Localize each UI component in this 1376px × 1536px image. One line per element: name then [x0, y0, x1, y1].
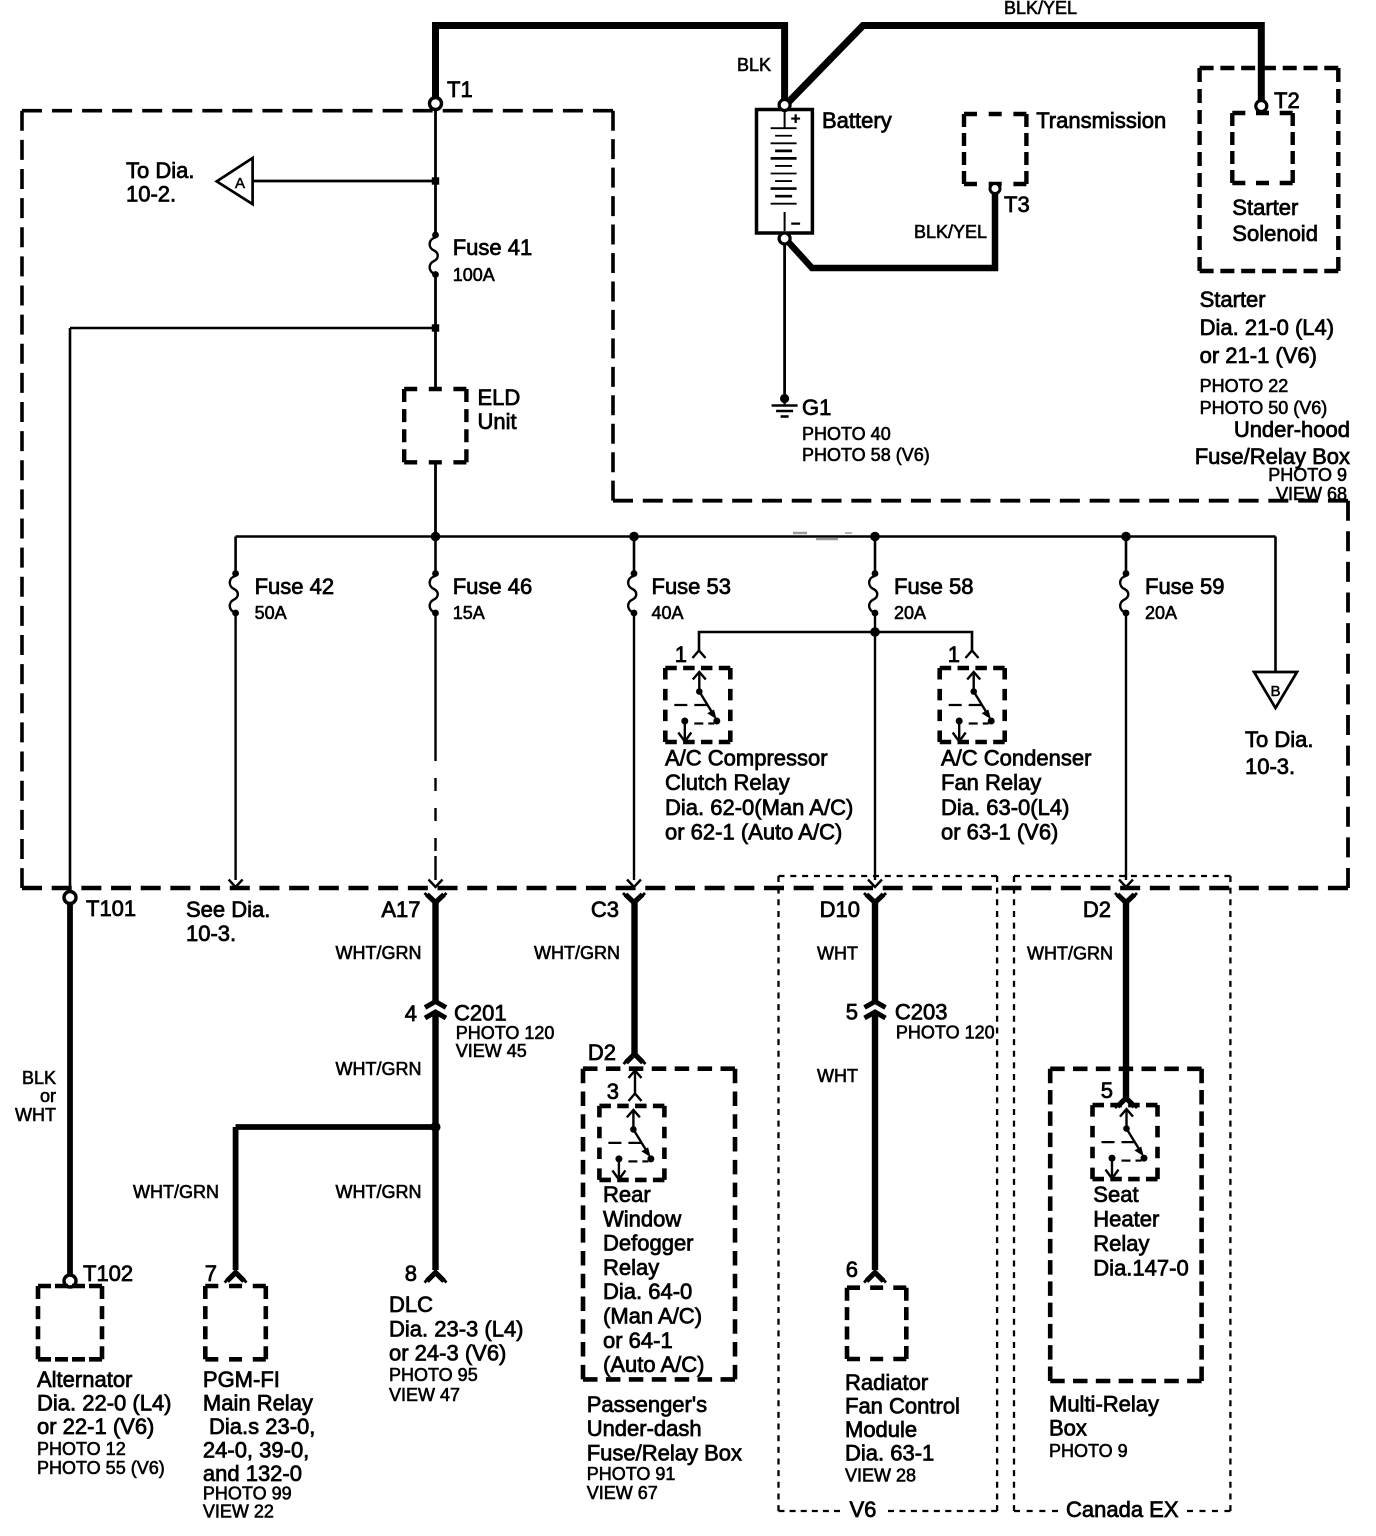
svg-text:WHT/GRN: WHT/GRN: [336, 1182, 422, 1202]
svg-text:BLK: BLK: [737, 55, 771, 75]
svg-text:or 22-1 (V6): or 22-1 (V6): [37, 1414, 154, 1439]
svg-text:Fuse 53: Fuse 53: [652, 574, 732, 599]
svg-text:PHOTO 12: PHOTO 12: [37, 1439, 126, 1459]
svg-text:7: 7: [205, 1261, 217, 1286]
svg-text:PHOTO 99: PHOTO 99: [203, 1484, 292, 1504]
svg-text:Dia.147-0: Dia.147-0: [1093, 1256, 1188, 1281]
svg-text:B: B: [1270, 683, 1280, 700]
svg-text:A/C Compressor: A/C Compressor: [665, 746, 828, 771]
svg-text:8: 8: [405, 1261, 417, 1286]
svg-text:PHOTO 120: PHOTO 120: [456, 1023, 555, 1043]
svg-text:Defogger: Defogger: [603, 1231, 694, 1256]
svg-text:3: 3: [607, 1079, 619, 1104]
svg-text:Clutch Relay: Clutch Relay: [665, 770, 790, 795]
svg-text:WHT: WHT: [15, 1105, 56, 1125]
svg-text:Multi-Relay: Multi-Relay: [1049, 1392, 1159, 1417]
svg-text:Dia. 63-1: Dia. 63-1: [845, 1441, 934, 1466]
svg-text:To Dia.: To Dia.: [1245, 727, 1313, 752]
svg-text:G1: G1: [802, 395, 831, 420]
svg-text:Alternator: Alternator: [37, 1367, 132, 1392]
svg-text:Fuse 59: Fuse 59: [1145, 574, 1225, 599]
svg-text:10-3.: 10-3.: [1245, 754, 1295, 779]
svg-text:Fuse 42: Fuse 42: [255, 574, 335, 599]
svg-text:(Auto A/C): (Auto A/C): [603, 1352, 704, 1377]
svg-text:VIEW 45: VIEW 45: [456, 1041, 527, 1061]
svg-text:To Dia.: To Dia.: [126, 158, 194, 183]
svg-text:Seat: Seat: [1093, 1182, 1138, 1207]
svg-text:Fuse 46: Fuse 46: [453, 574, 533, 599]
svg-text:(Man A/C): (Man A/C): [603, 1304, 702, 1329]
svg-text:15A: 15A: [453, 603, 485, 623]
svg-text:Relay: Relay: [603, 1255, 659, 1280]
svg-text:WHT/GRN: WHT/GRN: [534, 943, 620, 963]
svg-text:Relay: Relay: [1093, 1231, 1149, 1256]
svg-text:and 132-0: and 132-0: [203, 1461, 302, 1486]
svg-text:Dia. 21-0 (L4): Dia. 21-0 (L4): [1200, 315, 1335, 340]
svg-text:20A: 20A: [1145, 603, 1177, 623]
svg-text:24-0, 39-0,: 24-0, 39-0,: [203, 1438, 309, 1463]
svg-text:Starter: Starter: [1200, 287, 1266, 312]
svg-text:ELD: ELD: [478, 385, 521, 410]
svg-text:T102: T102: [83, 1261, 133, 1286]
svg-text:Fuse 58: Fuse 58: [894, 574, 974, 599]
svg-text:Fuse/Relay Box: Fuse/Relay Box: [587, 1440, 742, 1465]
svg-text:Battery: Battery: [822, 108, 892, 133]
svg-text:50A: 50A: [255, 603, 287, 623]
svg-text:Dia. 62-0(Man A/C): Dia. 62-0(Man A/C): [665, 795, 853, 820]
svg-text:+: +: [791, 111, 800, 128]
svg-text:WHT/GRN: WHT/GRN: [336, 943, 422, 963]
svg-text:See Dia.: See Dia.: [186, 897, 270, 922]
svg-text:T3: T3: [1004, 192, 1030, 217]
svg-text:Dia. 22-0 (L4): Dia. 22-0 (L4): [37, 1391, 172, 1416]
svg-text:Radiator: Radiator: [845, 1370, 928, 1395]
svg-text:Unit: Unit: [478, 409, 517, 434]
svg-text:100A: 100A: [453, 265, 495, 285]
svg-text:D10: D10: [820, 897, 860, 922]
svg-text:5: 5: [1101, 1078, 1113, 1103]
svg-text:PGM-FI: PGM-FI: [203, 1367, 280, 1392]
svg-text:T1: T1: [447, 77, 473, 102]
svg-text:PHOTO 55 (V6): PHOTO 55 (V6): [37, 1458, 165, 1478]
svg-text:C3: C3: [591, 897, 619, 922]
svg-text:Module: Module: [845, 1417, 917, 1442]
svg-text:Passenger's: Passenger's: [587, 1392, 707, 1417]
svg-text:5: 5: [846, 1000, 858, 1025]
svg-text:Window: Window: [603, 1206, 681, 1231]
svg-text:Box: Box: [1049, 1416, 1087, 1441]
svg-text:Fuse 41: Fuse 41: [453, 235, 533, 260]
svg-text:WHT/GRN: WHT/GRN: [133, 1182, 219, 1202]
svg-text:Dia.s 23-0,: Dia.s 23-0,: [209, 1414, 315, 1439]
svg-text:1: 1: [948, 642, 960, 667]
svg-text:Rear: Rear: [603, 1182, 651, 1207]
svg-text:D2: D2: [588, 1040, 616, 1065]
svg-text:Under-hood: Under-hood: [1234, 417, 1350, 442]
svg-text:VIEW 22: VIEW 22: [203, 1502, 274, 1522]
svg-text:WHT/GRN: WHT/GRN: [1027, 944, 1113, 964]
svg-text:T101: T101: [86, 896, 136, 921]
svg-text:PHOTO 9: PHOTO 9: [1268, 465, 1347, 485]
svg-text:BLK/YEL: BLK/YEL: [1004, 0, 1077, 18]
svg-text:Solenoid: Solenoid: [1232, 221, 1318, 246]
svg-text:Heater: Heater: [1093, 1207, 1159, 1232]
svg-text:C201: C201: [454, 1001, 507, 1026]
svg-text:10-2.: 10-2.: [126, 182, 176, 207]
svg-text:or 21-1 (V6): or 21-1 (V6): [1200, 343, 1317, 368]
svg-text:Under-dash: Under-dash: [587, 1416, 702, 1441]
svg-text:Fan Control: Fan Control: [845, 1394, 960, 1419]
svg-text:PHOTO 50 (V6): PHOTO 50 (V6): [1200, 398, 1328, 418]
svg-text:20A: 20A: [894, 603, 926, 623]
svg-text:or 62-1 (Auto A/C): or 62-1 (Auto A/C): [665, 820, 842, 845]
svg-text:VIEW 67: VIEW 67: [587, 1483, 658, 1503]
svg-text:T2: T2: [1274, 88, 1300, 113]
svg-text:40A: 40A: [652, 603, 684, 623]
svg-text:−: −: [791, 216, 800, 233]
svg-text:or 24-3 (V6): or 24-3 (V6): [389, 1341, 506, 1366]
svg-text:Dia. 63-0(L4): Dia. 63-0(L4): [941, 795, 1069, 820]
svg-text:WHT/GRN: WHT/GRN: [336, 1059, 422, 1079]
svg-text:1: 1: [675, 642, 687, 667]
svg-text:DLC: DLC: [389, 1292, 433, 1317]
svg-text:6: 6: [846, 1257, 858, 1282]
svg-text:D2: D2: [1083, 897, 1111, 922]
svg-text:PHOTO 40: PHOTO 40: [802, 424, 891, 444]
svg-text:Dia. 64-0: Dia. 64-0: [603, 1279, 692, 1304]
svg-text:Starter: Starter: [1232, 195, 1298, 220]
svg-text:PHOTO 58 (V6): PHOTO 58 (V6): [802, 445, 930, 465]
svg-text:10-3.: 10-3.: [186, 921, 236, 946]
svg-text:Dia. 23-3 (L4): Dia. 23-3 (L4): [389, 1316, 524, 1341]
svg-text:or 64-1: or 64-1: [603, 1328, 673, 1353]
svg-text:Fan Relay: Fan Relay: [941, 770, 1041, 795]
svg-text:A17: A17: [381, 897, 420, 922]
svg-text:Transmission: Transmission: [1036, 108, 1166, 133]
svg-text:A/C Condenser: A/C Condenser: [941, 746, 1091, 771]
svg-text:VIEW 47: VIEW 47: [389, 1385, 460, 1405]
svg-text:VIEW 68: VIEW 68: [1276, 484, 1347, 504]
svg-text:or 63-1 (V6): or 63-1 (V6): [941, 820, 1058, 845]
svg-text:4: 4: [405, 1001, 417, 1026]
svg-text:PHOTO 9: PHOTO 9: [1049, 1441, 1128, 1461]
svg-text:WHT: WHT: [817, 944, 858, 964]
svg-text:or: or: [40, 1086, 56, 1106]
svg-text:VIEW 28: VIEW 28: [845, 1466, 916, 1486]
svg-text:WHT: WHT: [817, 1066, 858, 1086]
svg-text:V6: V6: [850, 1497, 877, 1522]
svg-text:PHOTO 95: PHOTO 95: [389, 1365, 478, 1385]
svg-text:A: A: [235, 175, 245, 192]
svg-text:BLK/YEL: BLK/YEL: [914, 222, 987, 242]
svg-text:BLK: BLK: [22, 1068, 56, 1088]
svg-text:PHOTO 91: PHOTO 91: [587, 1464, 676, 1484]
svg-text:PHOTO 120: PHOTO 120: [896, 1023, 995, 1043]
svg-text:Main Relay: Main Relay: [203, 1391, 313, 1416]
svg-text:PHOTO 22: PHOTO 22: [1200, 376, 1289, 396]
svg-text:Canada EX: Canada EX: [1066, 1497, 1179, 1522]
svg-text:C203: C203: [895, 1000, 948, 1025]
